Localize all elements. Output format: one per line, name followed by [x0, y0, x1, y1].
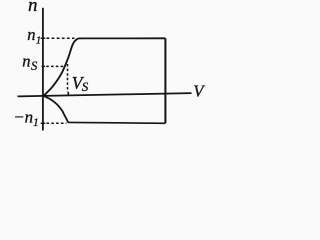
svg-text:S: S [82, 79, 89, 94]
right vertical side of loop [164, 38, 166, 123]
n1 dashed guide line [47, 37, 75, 39]
svg-text:n: n [27, 25, 35, 44]
svg-text:S: S [31, 59, 38, 73]
VS tick above V axis [67, 92, 69, 95]
nS dashed guide line [46, 65, 65, 67]
svg-text:1: 1 [36, 34, 42, 46]
svg-text:−n: −n [13, 107, 33, 126]
upper branch curve from origin to n1 level [44, 38, 81, 95]
svg-text:n: n [22, 52, 30, 71]
nS tick on n axis [42, 65, 46, 67]
top flat line at n1 [80, 37, 165, 39]
-n1 dashed guide line [47, 122, 67, 124]
n1 tick on n axis [41, 37, 46, 39]
n axis (vertical) [42, 8, 44, 131]
svg-text:1: 1 [33, 117, 39, 129]
VS dashed vertical guide [67, 64, 69, 92]
lower branch curve from origin to -n1 level [44, 96, 69, 123]
bottom flat line at -n1 [68, 121, 165, 124]
V axis (horizontal) [18, 93, 192, 96]
-n1 tick on n axis [41, 122, 46, 124]
svg-text:n: n [28, 0, 38, 16]
